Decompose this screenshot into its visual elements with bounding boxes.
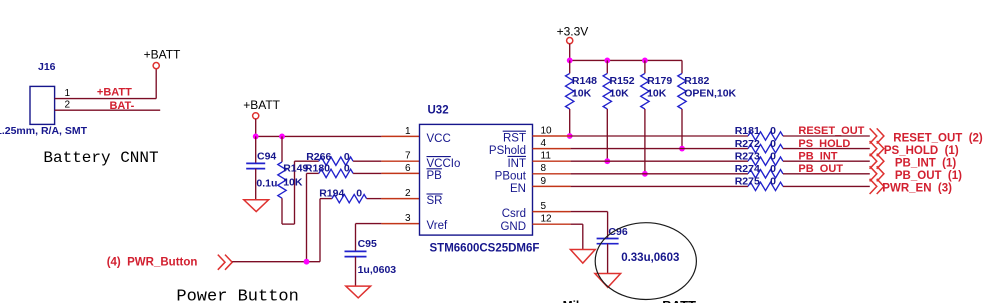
svg-text:C96: C96	[608, 226, 627, 238]
svg-text:PShold: PShold	[489, 145, 526, 157]
svg-text:PWR_EN (3): PWR_EN (3)	[882, 183, 952, 195]
svg-text:10: 10	[541, 125, 553, 136]
svg-text:SR: SR	[427, 195, 443, 207]
svg-text:PB_INT (1): PB_INT (1)	[895, 158, 957, 170]
svg-text:Csrd: Csrd	[502, 208, 526, 220]
svg-text:9: 9	[541, 176, 547, 187]
svg-text:R272: R272	[735, 138, 760, 150]
svg-text:R181: R181	[735, 125, 760, 137]
svg-text:Mil: Mil	[563, 298, 580, 303]
svg-text:PS_HOLD: PS_HOLD	[798, 138, 850, 150]
svg-text:3: 3	[405, 213, 411, 224]
svg-text:+BATT: +BATT	[97, 87, 132, 99]
svg-text:RST: RST	[503, 133, 526, 145]
svg-text:EN: EN	[510, 183, 526, 195]
svg-text:C94: C94	[257, 150, 276, 162]
svg-text:GND: GND	[500, 221, 526, 233]
svg-text:7: 7	[405, 151, 411, 162]
svg-text:1u,0603: 1u,0603	[358, 264, 397, 276]
svg-text:1.25mm, R/A, SMT: 1.25mm, R/A, SMT	[0, 125, 88, 137]
svg-text:0: 0	[344, 162, 350, 174]
svg-text:J16: J16	[38, 61, 56, 73]
svg-text:STM6600CS25DM6F: STM6600CS25DM6F	[430, 242, 540, 254]
svg-text:10K: 10K	[647, 88, 667, 100]
svg-text:Vref: Vref	[427, 220, 448, 232]
svg-text:8: 8	[541, 163, 547, 174]
svg-text:BAT-: BAT-	[109, 100, 134, 112]
svg-text:2: 2	[65, 100, 71, 111]
svg-text:10K: 10K	[283, 177, 303, 189]
svg-text:RESET_OUT: RESET_OUT	[798, 125, 864, 137]
svg-text:RESET_OUT (2): RESET_OUT (2)	[893, 132, 983, 144]
svg-text:PB: PB	[427, 170, 443, 182]
svg-text:+3.3V: +3.3V	[557, 24, 589, 38]
svg-text:0: 0	[344, 151, 350, 163]
svg-text:6: 6	[405, 163, 411, 174]
svg-text:BATT: BATT	[662, 298, 696, 303]
svg-text:10K: 10K	[610, 88, 630, 100]
svg-text:0: 0	[770, 138, 776, 150]
svg-text:0: 0	[356, 188, 362, 200]
svg-text:0.1u: 0.1u	[256, 178, 277, 190]
svg-text:R152: R152	[610, 75, 635, 87]
svg-text:PB_OUT (1): PB_OUT (1)	[895, 170, 962, 182]
svg-text:1: 1	[65, 88, 71, 99]
svg-text:U32: U32	[428, 105, 449, 117]
svg-text:PS_HOLD (1): PS_HOLD (1)	[884, 145, 959, 157]
svg-text:R273: R273	[735, 150, 760, 162]
svg-text:10K: 10K	[572, 88, 592, 100]
svg-text:R148: R148	[572, 75, 597, 87]
svg-text:12: 12	[541, 214, 553, 225]
svg-text:+BATT: +BATT	[144, 47, 181, 61]
svg-text:R179: R179	[647, 75, 672, 87]
svg-text:PB_INT: PB_INT	[798, 150, 837, 162]
svg-text:2: 2	[405, 188, 411, 199]
svg-text:0: 0	[770, 176, 776, 188]
svg-text:INT: INT	[507, 158, 526, 170]
svg-text:4: 4	[541, 138, 547, 149]
svg-text:0.33u,0603: 0.33u,0603	[621, 252, 679, 264]
svg-text:1: 1	[405, 126, 411, 137]
svg-text:R194: R194	[319, 188, 344, 200]
svg-text:C95: C95	[358, 238, 377, 250]
svg-text:R274: R274	[735, 163, 760, 175]
svg-text:VCC: VCC	[427, 133, 451, 145]
svg-text:Battery CNNT: Battery CNNT	[43, 149, 158, 167]
svg-text:+BATT: +BATT	[243, 98, 280, 112]
svg-text:VCCIo: VCCIo	[427, 158, 461, 170]
svg-text:11: 11	[541, 151, 552, 162]
svg-text:R275: R275	[735, 176, 760, 188]
svg-text:R182: R182	[684, 75, 709, 87]
svg-text:OPEN,10K: OPEN,10K	[684, 88, 736, 100]
svg-text:0: 0	[770, 163, 776, 175]
svg-text:0: 0	[770, 125, 776, 137]
svg-text:PBout: PBout	[495, 170, 527, 182]
svg-text:R180: R180	[305, 162, 330, 174]
svg-text:0: 0	[770, 150, 776, 162]
svg-text:R266: R266	[306, 151, 331, 163]
svg-text:Power Button: Power Button	[176, 287, 298, 303]
svg-text:PB_OUT: PB_OUT	[798, 163, 843, 175]
svg-text:(4) PWR_Button: (4) PWR_Button	[107, 256, 198, 268]
svg-text:5: 5	[541, 201, 547, 212]
